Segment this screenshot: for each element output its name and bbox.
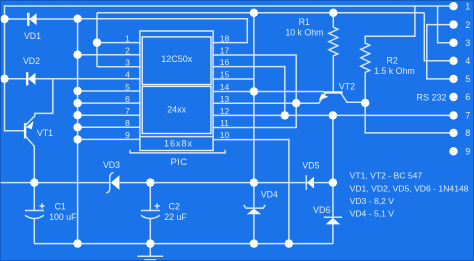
- svg-text:7: 7: [465, 111, 470, 121]
- svg-text:100 uF: 100 uF: [49, 212, 77, 222]
- svg-text:R2: R2: [386, 55, 397, 65]
- svg-text:12: 12: [220, 106, 230, 116]
- svg-text:14: 14: [220, 82, 230, 92]
- svg-text:4: 4: [125, 70, 130, 80]
- svg-text:22 uF: 22 uF: [164, 212, 187, 222]
- svg-text:18: 18: [220, 33, 230, 43]
- svg-text:10 k Ohm: 10 k Ohm: [285, 28, 323, 38]
- svg-text:R1: R1: [299, 17, 310, 27]
- svg-text:VD3: VD3: [103, 160, 120, 170]
- svg-text:VD2: VD2: [23, 56, 40, 66]
- svg-text:16: 16: [220, 57, 230, 67]
- svg-text:3: 3: [125, 58, 130, 68]
- svg-text:1: 1: [465, 1, 470, 11]
- svg-text:2: 2: [465, 20, 470, 30]
- svg-text:VD5: VD5: [302, 161, 319, 171]
- svg-text:12C50x: 12C50x: [161, 54, 193, 64]
- svg-text:VT1: VT1: [37, 128, 53, 138]
- svg-text:VD3 - 8,2 V: VD3 - 8,2 V: [350, 196, 395, 206]
- svg-text:VT1, VT2 - BC 547: VT1, VT2 - BC 547: [350, 170, 423, 180]
- svg-text:10: 10: [220, 130, 230, 140]
- svg-text:VD1: VD1: [24, 31, 41, 41]
- svg-text:6: 6: [465, 92, 470, 102]
- svg-text:5: 5: [125, 82, 130, 92]
- svg-text:3: 3: [465, 38, 470, 48]
- svg-text:13: 13: [220, 94, 230, 104]
- svg-text:RS 232: RS 232: [416, 92, 446, 102]
- svg-text:11: 11: [220, 118, 229, 128]
- svg-text:1: 1: [125, 33, 130, 43]
- svg-text:C1: C1: [55, 202, 66, 212]
- svg-text:9: 9: [465, 147, 470, 157]
- svg-text:2: 2: [125, 46, 130, 56]
- svg-text:9: 9: [125, 130, 130, 140]
- svg-text:5: 5: [465, 74, 470, 84]
- svg-text:VD1, VD2, VD5, VD6 - 1N4148: VD1, VD2, VD5, VD6 - 1N4148: [350, 183, 469, 193]
- svg-text:VD4 - 5,1 V: VD4 - 5,1 V: [350, 209, 395, 219]
- svg-text:15: 15: [220, 70, 230, 80]
- svg-text:8: 8: [465, 128, 470, 138]
- svg-text:7: 7: [125, 106, 130, 116]
- svg-text:17: 17: [220, 46, 230, 56]
- svg-text:VD6: VD6: [313, 205, 330, 215]
- svg-text:8: 8: [125, 118, 130, 128]
- svg-text:PIC: PIC: [170, 157, 187, 168]
- svg-text:1.5 k Ohm: 1.5 k Ohm: [374, 66, 415, 76]
- svg-text:24xx: 24xx: [167, 105, 187, 115]
- svg-text:VD4: VD4: [261, 189, 278, 199]
- svg-text:C2: C2: [169, 202, 180, 212]
- svg-text:6: 6: [125, 94, 130, 104]
- svg-text:4: 4: [465, 56, 470, 66]
- svg-text:16x8x: 16x8x: [164, 138, 193, 148]
- svg-text:VT2: VT2: [339, 82, 355, 92]
